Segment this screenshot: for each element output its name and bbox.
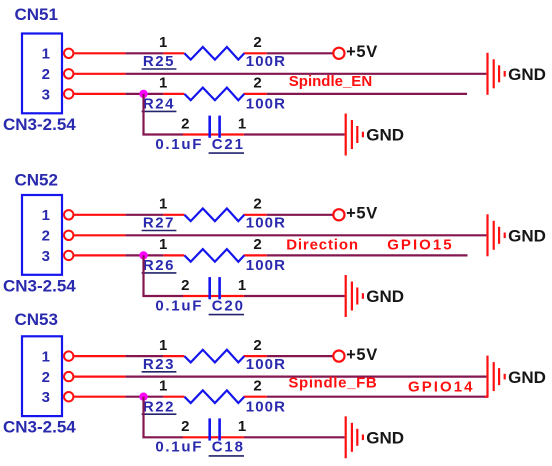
svg-text:0.1uF: 0.1uF — [155, 439, 203, 456]
svg-text:100R: 100R — [246, 215, 286, 232]
svg-text:GND: GND — [508, 227, 546, 246]
svg-text:3: 3 — [42, 389, 50, 406]
svg-text:1: 1 — [238, 277, 246, 294]
svg-text:100R: 100R — [246, 257, 286, 274]
svg-text:1: 1 — [42, 46, 50, 63]
svg-text:+5V: +5V — [346, 205, 378, 223]
svg-text:R26: R26 — [143, 257, 175, 274]
svg-text:2: 2 — [181, 418, 189, 435]
svg-text:3: 3 — [42, 86, 50, 103]
svg-text:CN3-2.54: CN3-2.54 — [3, 418, 76, 437]
svg-text:GPIO14: GPIO14 — [408, 379, 475, 396]
svg-text:2: 2 — [253, 34, 261, 51]
svg-text:+5V: +5V — [346, 43, 378, 61]
svg-text:2: 2 — [253, 236, 261, 253]
svg-text:2: 2 — [42, 369, 50, 386]
svg-text:Direction: Direction — [286, 236, 359, 253]
svg-text:C18: C18 — [212, 439, 245, 456]
svg-text:GND: GND — [366, 287, 404, 306]
svg-text:100R: 100R — [246, 53, 286, 70]
svg-text:1: 1 — [238, 115, 246, 132]
svg-text:0.1uF: 0.1uF — [155, 297, 203, 314]
svg-text:Spindle_EN: Spindle_EN — [289, 73, 372, 90]
svg-text:GND: GND — [508, 65, 546, 84]
svg-text:1: 1 — [159, 378, 167, 395]
svg-text:1: 1 — [42, 349, 50, 366]
svg-text:3: 3 — [42, 248, 50, 265]
svg-text:CN3-2.54: CN3-2.54 — [3, 276, 76, 295]
svg-text:R25: R25 — [143, 53, 175, 70]
svg-text:1: 1 — [159, 236, 167, 253]
svg-text:C20: C20 — [212, 297, 245, 314]
svg-text:1: 1 — [159, 196, 167, 213]
svg-text:CN3-2.54: CN3-2.54 — [3, 115, 76, 134]
svg-text:1: 1 — [159, 75, 167, 92]
svg-text:R27: R27 — [143, 215, 175, 232]
svg-text:GND: GND — [508, 368, 546, 387]
svg-text:2: 2 — [181, 277, 189, 294]
svg-text:1: 1 — [238, 418, 246, 435]
svg-text:GND: GND — [366, 126, 404, 145]
svg-text:1: 1 — [159, 337, 167, 354]
svg-text:100R: 100R — [246, 398, 286, 415]
svg-text:2: 2 — [181, 115, 189, 132]
svg-text:GPIO15: GPIO15 — [387, 236, 454, 253]
svg-text:2: 2 — [253, 75, 261, 92]
svg-text:Spindle_FB: Spindle_FB — [288, 374, 377, 391]
svg-text:C21: C21 — [212, 136, 245, 153]
svg-text:100R: 100R — [246, 356, 286, 373]
svg-text:R22: R22 — [143, 398, 175, 415]
svg-text:2: 2 — [253, 337, 261, 354]
svg-text:CN52: CN52 — [15, 171, 58, 190]
svg-text:R23: R23 — [143, 356, 175, 373]
svg-text:2: 2 — [42, 66, 50, 83]
svg-text:1: 1 — [42, 207, 50, 224]
svg-text:0.1uF: 0.1uF — [155, 136, 203, 153]
svg-text:+5V: +5V — [346, 346, 378, 364]
svg-text:GND: GND — [366, 429, 404, 448]
svg-text:CN53: CN53 — [15, 310, 58, 329]
svg-text:R24: R24 — [143, 96, 175, 113]
svg-text:100R: 100R — [246, 96, 286, 113]
svg-text:2: 2 — [253, 196, 261, 213]
svg-text:2: 2 — [42, 228, 50, 245]
svg-text:1: 1 — [159, 34, 167, 51]
svg-text:2: 2 — [253, 378, 261, 395]
svg-text:CN51: CN51 — [15, 5, 58, 24]
